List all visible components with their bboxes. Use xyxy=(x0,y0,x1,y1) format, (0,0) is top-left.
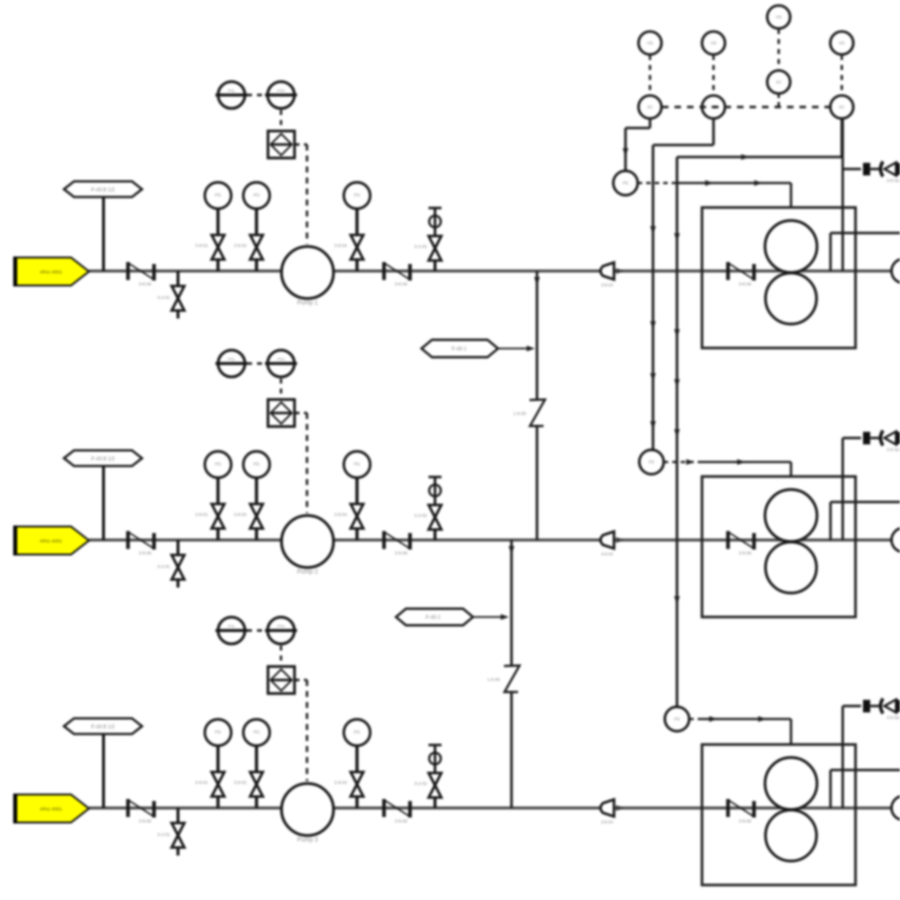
pump P2 xyxy=(282,516,334,576)
svg-text:3-8-06: 3-8-06 xyxy=(739,551,752,556)
flex joint FJ3-3 xyxy=(728,799,754,824)
svg-text:3-8-5a: 3-8-5a xyxy=(887,715,900,720)
svg-text:PG: PG xyxy=(354,462,361,467)
line label pill L4 xyxy=(422,340,534,357)
wire branch line B2 upper xyxy=(510,540,513,665)
line break Z2 xyxy=(487,666,519,693)
signal link PSH-relay 1 xyxy=(280,110,282,130)
svg-text:4/N1-4001: 4/N1-4001 xyxy=(40,270,63,276)
vent valve V2-2 xyxy=(414,477,441,540)
vent valve V1-2 xyxy=(414,208,441,271)
reducer spool 2 xyxy=(863,432,879,445)
inline silencer/cone N3 xyxy=(601,800,615,825)
pressure gauge PG2-1 xyxy=(195,451,231,540)
signal link PSL-PSH 3 xyxy=(247,629,266,631)
pressure gauge PG3-1 xyxy=(195,719,231,808)
svg-text:HS: HS xyxy=(839,41,845,46)
svg-text:3-2-01: 3-2-01 xyxy=(157,832,170,837)
svg-text:3-8-04: 3-8-04 xyxy=(601,552,614,557)
edge instrument circle E1 xyxy=(892,259,900,283)
flex joint FJ1-1 xyxy=(128,262,154,287)
svg-text:3-2-02: 3-2-02 xyxy=(414,513,427,518)
svg-text:3-8-02: 3-8-02 xyxy=(234,512,247,517)
svg-text:3-8-06: 3-8-06 xyxy=(739,282,752,287)
duplex strainer circle S2b xyxy=(766,542,817,593)
strainer unit box U1 xyxy=(702,208,856,349)
svg-text:3-8-04: 3-8-04 xyxy=(334,780,347,785)
svg-text:3-8-04: 3-8-04 xyxy=(601,283,614,288)
signal link PSL-PSH 2 xyxy=(247,362,266,364)
svg-text:PG: PG xyxy=(215,730,222,735)
flow arrow train 2 xyxy=(617,538,624,543)
svg-text:3-8-06: 3-8-06 xyxy=(139,282,152,287)
duplex strainer circle S3b xyxy=(766,810,817,861)
wire unit outlet branch 1 xyxy=(831,233,900,271)
flow arrow train 1 xyxy=(617,269,624,274)
strainer unit box U3 xyxy=(702,745,856,886)
wire branch line B1 lower xyxy=(536,427,539,540)
check valve CV3 xyxy=(881,699,900,721)
svg-text:3-8-02: 3-8-02 xyxy=(234,243,247,248)
svg-text:PG: PG xyxy=(253,193,260,198)
flow arrow on B1 xyxy=(535,277,540,284)
drain valve V3-1 xyxy=(157,808,184,856)
pressure gauge PG3-2 xyxy=(234,719,270,808)
wire branch line B2 lower xyxy=(510,693,513,808)
signal link PSH-relay 2 xyxy=(280,379,282,399)
wire chain C xyxy=(675,119,842,708)
svg-text:Pump 1: Pump 1 xyxy=(297,301,318,307)
svg-text:XC: XC xyxy=(839,105,845,110)
svg-text:3-8-06: 3-8-06 xyxy=(395,819,408,824)
pressure switch PSL1 xyxy=(216,82,248,109)
svg-text:Pump 3: Pump 3 xyxy=(297,838,318,844)
flex joint FJ2-3 xyxy=(728,531,754,556)
line label pill L1 xyxy=(64,181,142,271)
wire main pipe line train 1 xyxy=(89,269,900,272)
hand switch instrument HS2 xyxy=(702,32,725,55)
svg-text:3-8-02: 3-8-02 xyxy=(234,780,247,785)
signal link PSL-PSH 1 xyxy=(247,94,266,96)
relay instrument XC3 xyxy=(830,96,853,119)
svg-text:P-49 B 1/2: P-49 B 1/2 xyxy=(91,456,115,462)
pressure gauge PG1-2 xyxy=(234,182,270,271)
svg-text:3-8-06: 3-8-06 xyxy=(395,551,408,556)
svg-text:3-8-04: 3-8-04 xyxy=(334,243,347,248)
svg-text:HS: HS xyxy=(711,41,717,46)
wire chain A xyxy=(623,119,650,171)
svg-text:3-8-04: 3-8-04 xyxy=(601,820,614,825)
local instrument circle LI1 xyxy=(613,171,637,195)
wire main pipe line train 2 xyxy=(89,538,900,541)
drain valve V2-1 xyxy=(157,540,184,588)
svg-text:3-8-06: 3-8-06 xyxy=(139,819,152,824)
hand switch instrument HS5 xyxy=(767,71,790,94)
svg-text:3-8-06: 3-8-06 xyxy=(395,282,408,287)
signal dash 841 vertical xyxy=(841,55,843,95)
svg-text:P-49 B 1/2: P-49 B 1/2 xyxy=(91,187,115,193)
wire branch line B1 upper xyxy=(536,271,539,399)
svg-text:P-49 1: P-49 1 xyxy=(452,347,467,353)
svg-text:3-2-02: 3-2-02 xyxy=(414,244,427,249)
svg-text:3-2-01: 3-2-01 xyxy=(157,564,170,569)
flex joint FJ3-2 xyxy=(384,799,410,824)
pressure gauge PG2-2 xyxy=(234,451,270,540)
interlock relay K3 xyxy=(268,667,295,694)
signal line LI3 to strainer unit xyxy=(689,717,791,745)
signal dash 778 vertical upper xyxy=(778,29,780,71)
duplex strainer circle S2a xyxy=(765,490,817,542)
signal link PSH-relay 3 xyxy=(280,646,282,666)
svg-text:PS: PS xyxy=(649,460,655,465)
pressure gauge PG2-3 xyxy=(334,451,370,540)
svg-text:3-2-02: 3-2-02 xyxy=(414,781,427,786)
flex joint FJ2-1 xyxy=(128,531,154,556)
signal link relay-pump 1 xyxy=(295,145,307,245)
svg-text:PSL: PSL xyxy=(228,358,235,362)
wire unit outlet branch 3 xyxy=(831,770,900,808)
vent valve V3-2 xyxy=(414,745,441,808)
hand switch instrument HS1 xyxy=(639,32,662,55)
flow arrow on B2 xyxy=(509,546,514,553)
flex joint FJ1-3 xyxy=(728,262,754,287)
svg-text:P-49 2: P-49 2 xyxy=(426,615,441,621)
svg-text:HS: HS xyxy=(776,15,782,20)
line tag flag T3 xyxy=(15,794,90,824)
pressure switch PSH3 xyxy=(265,617,297,644)
line tag flag T1 xyxy=(15,257,90,287)
signal dash 650 vertical xyxy=(649,55,651,95)
svg-text:PSH: PSH xyxy=(277,89,285,93)
svg-text:3-8-01: 3-8-01 xyxy=(195,512,208,517)
wire chain B xyxy=(651,119,714,451)
reducer spool 1 xyxy=(863,163,879,176)
svg-text:HS: HS xyxy=(647,41,653,46)
svg-text:3-2-01: 3-2-01 xyxy=(157,295,170,300)
svg-text:PG: PG xyxy=(354,730,361,735)
svg-text:1-6-00: 1-6-00 xyxy=(487,677,500,682)
svg-text:3-8-5a: 3-8-5a xyxy=(887,178,900,183)
reducer spool 3 xyxy=(863,700,879,713)
edge instrument circle E2 xyxy=(892,528,900,552)
pressure switch PSL3 xyxy=(216,617,248,644)
svg-text:1-6-00: 1-6-00 xyxy=(513,411,526,416)
line tag flag T2 xyxy=(15,526,90,556)
hand switch instrument HS3 xyxy=(767,6,790,29)
svg-text:XC: XC xyxy=(647,105,653,110)
svg-text:3-8-5a: 3-8-5a xyxy=(887,447,900,452)
signal line LI2 to strainer unit xyxy=(664,460,791,477)
svg-text:P-49 B 1/2: P-49 B 1/2 xyxy=(91,724,115,730)
inline silencer/cone N1 xyxy=(601,263,615,288)
signal link relay-pump 3 xyxy=(295,680,307,781)
wire main pipe line train 3 xyxy=(89,806,900,809)
pressure gauge PG1-3 xyxy=(334,182,370,271)
svg-text:PG: PG xyxy=(253,462,260,467)
svg-text:4/N1-4001: 4/N1-4001 xyxy=(40,807,63,813)
pressure gauge PG1-1 xyxy=(195,182,231,271)
svg-text:PG: PG xyxy=(354,193,361,198)
wire unit outlet branch 2 xyxy=(831,502,900,540)
relay instrument XC2 xyxy=(702,96,725,119)
signal dash 713 vertical xyxy=(712,55,714,95)
svg-text:3-8-04: 3-8-04 xyxy=(334,512,347,517)
svg-text:3-8-06: 3-8-06 xyxy=(139,551,152,556)
svg-text:PSL: PSL xyxy=(228,89,235,93)
signal line LI1 to strainer unit xyxy=(638,181,791,208)
signal dash horizontal bus xyxy=(662,106,830,108)
pressure switch PSL2 xyxy=(216,350,248,377)
duplex strainer circle S1b xyxy=(766,273,817,324)
line label pill L5 xyxy=(396,609,508,626)
svg-text:PS: PS xyxy=(623,181,629,186)
pump P1 xyxy=(282,247,334,307)
strainer unit box U2 xyxy=(702,477,856,618)
relay instrument XC1 xyxy=(639,96,662,119)
pressure switch PSH1 xyxy=(265,82,297,109)
pressure switch PSH2 xyxy=(265,350,297,377)
pressure gauge PG3-3 xyxy=(334,719,370,808)
svg-text:PS: PS xyxy=(674,717,680,722)
svg-text:Pump 2: Pump 2 xyxy=(297,570,318,576)
check valve CV1 xyxy=(881,162,900,184)
line label pill L2 xyxy=(64,450,142,540)
line break Z1 xyxy=(513,400,545,427)
signal dash 778 vertical lower xyxy=(778,94,780,107)
wire relief branch 3 xyxy=(843,706,861,808)
svg-text:PSH: PSH xyxy=(277,625,285,629)
interlock relay K2 xyxy=(268,400,295,427)
local instrument circle LI2 xyxy=(639,450,663,474)
edge instrument circle E3 xyxy=(892,796,900,820)
wire relief branch 1 xyxy=(843,119,861,272)
svg-text:PSL: PSL xyxy=(228,625,235,629)
wire relief branch 2 xyxy=(843,438,861,540)
line label pill L3 xyxy=(64,718,142,808)
hand switch instrument HS4 xyxy=(830,32,853,55)
local instrument circle LI3 xyxy=(665,707,689,731)
flow arrow train 3 xyxy=(617,806,624,811)
svg-text:PG: PG xyxy=(215,462,222,467)
svg-text:3-8-01: 3-8-01 xyxy=(195,780,208,785)
inline silencer/cone N2 xyxy=(601,532,615,557)
pump P3 xyxy=(282,784,334,844)
svg-text:3-8-06: 3-8-06 xyxy=(739,819,752,824)
flex joint FJ2-2 xyxy=(384,531,410,556)
interlock relay K1 xyxy=(268,131,295,158)
duplex strainer circle S1a xyxy=(765,221,817,273)
svg-text:4/N1-4001: 4/N1-4001 xyxy=(40,539,63,545)
svg-text:PG: PG xyxy=(215,193,222,198)
check valve CV2 xyxy=(881,431,900,453)
drain valve V1-1 xyxy=(157,271,184,319)
svg-text:PG: PG xyxy=(253,730,260,735)
signal link relay-pump 2 xyxy=(295,413,307,513)
svg-text:3-8-01: 3-8-01 xyxy=(195,243,208,248)
duplex strainer circle S3a xyxy=(765,758,817,810)
svg-text:XA: XA xyxy=(776,80,782,85)
flex joint FJ3-1 xyxy=(128,799,154,824)
flex joint FJ1-2 xyxy=(384,262,410,287)
svg-text:PSH: PSH xyxy=(277,358,285,362)
